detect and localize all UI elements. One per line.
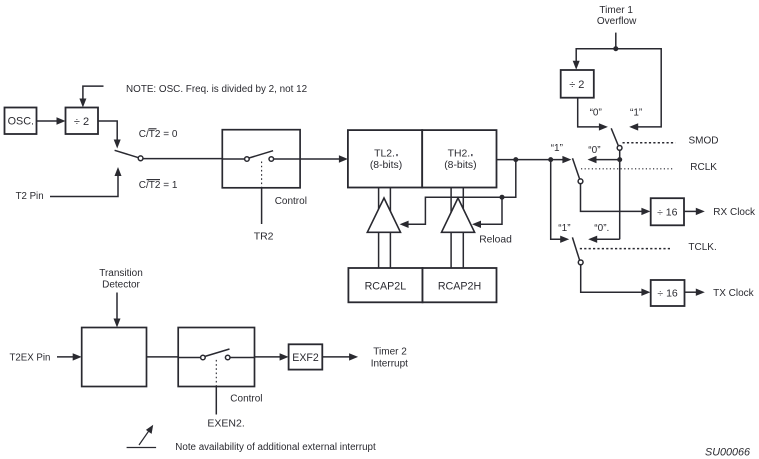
svg-text:RCAP2L: RCAP2L	[365, 281, 407, 293]
svg-text:Transition: Transition	[99, 268, 143, 279]
switch C/T2 lever and contact	[115, 150, 143, 160]
wire EXF2 to Timer 2 Interrupt	[322, 353, 358, 360]
wire TR2 control stem	[261, 188, 263, 224]
svg-text:“0”.: “0”.	[594, 223, 609, 234]
svg-text:“0”: “0”	[588, 145, 600, 156]
svg-text:SU00066: SU00066	[705, 447, 750, 459]
svg-text:Control: Control	[230, 394, 262, 405]
label C/T2 = 0	[139, 129, 178, 140]
wire TH2 overflow output line	[497, 156, 572, 163]
svg-text:Interrupt: Interrupt	[371, 358, 408, 369]
wire control box 1 to TL2 with arrowhead	[300, 155, 348, 162]
wire OSC to divide-by-2 with arrowhead	[37, 117, 66, 124]
wire /16 to RX Clock	[684, 208, 705, 215]
junction dot TCLK tap	[548, 157, 553, 162]
svg-text:÷ 16: ÷ 16	[657, 287, 678, 299]
svg-text:EXF2: EXF2	[292, 352, 319, 364]
svg-text:Reload: Reload	[479, 235, 512, 246]
reload branch to TH2 buffer	[472, 197, 502, 228]
dashed control actuator (EXEN2)	[215, 360, 217, 387]
svg-text:(8-bits): (8-bits)	[370, 160, 402, 171]
switch inside control box 2	[178, 349, 254, 360]
wire TCLK "0" feed	[588, 236, 620, 243]
wire RCLK "0" input arrow	[588, 156, 620, 163]
junction dot timer1 overflow	[613, 46, 618, 51]
dashed TCLK line	[580, 248, 672, 250]
wire RCLK output to /16 RX	[581, 184, 651, 215]
switch TCLK lever	[572, 237, 583, 264]
svg-text:SMOD: SMOD	[689, 135, 719, 146]
junction dot on reload branch	[500, 195, 505, 200]
svg-text:“0”: “0”	[590, 108, 602, 119]
capture register RCAP2H box	[423, 268, 497, 302]
svg-text:T2EX Pin: T2EX Pin	[10, 353, 51, 364]
svg-text:TH2.: TH2.	[448, 149, 471, 160]
divider /2 (timer1) box	[561, 70, 594, 98]
label Timer 1 Overflow	[597, 5, 637, 27]
svg-text:“1”: “1”	[558, 223, 570, 234]
junction dot SMOD rail	[617, 157, 622, 162]
transition detector box	[82, 328, 147, 387]
dashed control actuator line	[261, 162, 263, 188]
svg-text:(8-bits): (8-bits)	[444, 160, 476, 171]
svg-text:“1”: “1”	[630, 108, 642, 119]
dashed RCLK line	[581, 168, 675, 170]
wire SMOD output down to RCLK/TCLK "0" rail	[619, 150, 621, 239]
bus lines TH2 to RCAP2H	[451, 188, 463, 269]
edge symbol note arrow	[127, 425, 157, 448]
divider /2 (osc prescaler) box	[66, 108, 99, 135]
svg-text:÷ 2: ÷ 2	[74, 116, 89, 128]
svg-text:TCLK.: TCLK.	[688, 242, 716, 253]
svg-text:Control: Control	[275, 196, 307, 207]
svg-text:Note availability of additiona: Note availability of additional external…	[175, 442, 376, 453]
capture register RCAP2L box	[348, 268, 422, 302]
oscillator OSC box	[5, 108, 37, 135]
label Timer 2 Interrupt	[371, 346, 408, 369]
wire control box 2 to EXF2	[255, 353, 289, 360]
svg-text:TR2: TR2	[254, 231, 274, 243]
svg-text:Overflow: Overflow	[597, 16, 637, 27]
control box 1 (TR2 control)	[222, 130, 300, 188]
svg-text:TX Clock: TX Clock	[713, 288, 755, 299]
TL2 label	[370, 149, 402, 172]
switch inside control box 1	[222, 151, 300, 162]
svg-text:RX Clock: RX Clock	[713, 207, 756, 218]
wire TCLK output to /16 TX	[581, 265, 651, 296]
wire timer 1 overflow feed	[573, 33, 662, 131]
TH2 label	[444, 149, 476, 172]
label Transition Detector	[99, 268, 143, 291]
wire switch to Control box 1	[143, 158, 222, 160]
svg-text:Detector: Detector	[102, 280, 140, 291]
wire /2 output to switch, arrow down	[98, 121, 121, 149]
note pointer stub wire into /2 top	[79, 86, 103, 107]
dashed SMOD line	[623, 142, 676, 144]
divider /16 (RX) box	[651, 198, 684, 225]
svg-text:RCLK: RCLK	[690, 162, 717, 173]
register TH2 box	[422, 130, 496, 187]
control box 2 (EXEN2 control)	[178, 328, 254, 387]
buffer triangle for TH2	[442, 198, 475, 232]
svg-text:T2 Pin: T2 Pin	[16, 191, 44, 202]
wire T2 Pin up-arrow into switch	[50, 167, 122, 197]
wire transition detector pointer arrow	[114, 293, 121, 328]
wire EXEN2 stem	[215, 387, 217, 415]
wire /2 output to SMOD switch "0" input	[578, 98, 608, 131]
wire T2EX Pin into detector	[57, 353, 82, 360]
svg-text:RCAP2H: RCAP2H	[438, 281, 481, 293]
buffer triangle for TL2	[367, 198, 400, 232]
flag EXF2 box	[289, 344, 323, 369]
wire TCLK "1" feed	[551, 160, 570, 243]
svg-text:TL2.: TL2.	[374, 149, 395, 160]
svg-text:÷ 16: ÷ 16	[657, 206, 678, 218]
svg-text:Timer 1: Timer 1	[599, 5, 633, 16]
wire detector to control box 2	[147, 356, 179, 358]
svg-text:“1”: “1”	[551, 143, 563, 154]
svg-text:C/T2 = 1: C/T2 = 1	[139, 180, 178, 191]
switch SMOD lever	[611, 128, 622, 150]
svg-text:OSC.: OSC.	[8, 116, 34, 128]
junction dot reload tap	[513, 157, 518, 162]
svg-text:÷ 2: ÷ 2	[569, 79, 584, 91]
label C/T2 = 1	[139, 180, 178, 191]
bus lines TL2 to RCAP2L	[379, 188, 391, 269]
svg-text:EXEN2.: EXEN2.	[207, 418, 244, 430]
register TL2 box	[348, 130, 422, 187]
wire /16 to TX Clock	[685, 289, 705, 296]
svg-text:Timer 2: Timer 2	[373, 346, 407, 357]
svg-text:NOTE: OSC. Freq. is divided by: NOTE: OSC. Freq. is divided by 2, not 12	[126, 84, 307, 95]
reload wire from TH2 output down	[400, 160, 516, 228]
switch RCLK lever	[573, 158, 583, 184]
svg-text:C/T2 = 0: C/T2 = 0	[139, 129, 178, 140]
divider /16 (TX) box	[651, 280, 685, 306]
